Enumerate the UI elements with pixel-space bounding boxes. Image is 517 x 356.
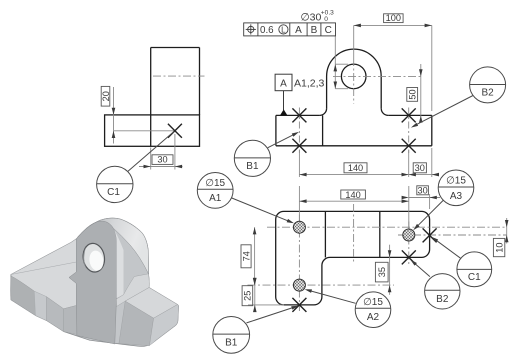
svg-text:25: 25: [243, 291, 253, 301]
svg-text:10: 10: [494, 242, 504, 252]
svg-text:30: 30: [415, 163, 425, 173]
svg-text:35: 35: [377, 267, 387, 277]
svg-text:B1: B1: [246, 161, 259, 172]
svg-text:B: B: [311, 25, 318, 36]
svg-text:∅15: ∅15: [446, 176, 466, 187]
svg-text:50: 50: [408, 89, 418, 99]
svg-text:30: 30: [157, 155, 167, 165]
svg-text:A1,2,3: A1,2,3: [294, 78, 325, 90]
svg-text:140: 140: [345, 190, 360, 200]
svg-text:L: L: [281, 25, 286, 34]
svg-text:B2: B2: [436, 294, 449, 305]
svg-text:0.6: 0.6: [260, 25, 274, 36]
svg-text:100: 100: [386, 13, 401, 23]
svg-text:C1: C1: [468, 272, 481, 283]
svg-text:0: 0: [324, 16, 328, 23]
svg-text:74: 74: [241, 251, 251, 261]
svg-text:A1: A1: [209, 193, 222, 204]
svg-text:20: 20: [101, 91, 111, 101]
svg-text:140: 140: [348, 163, 363, 173]
svg-text:A: A: [280, 78, 287, 89]
svg-text:∅15: ∅15: [205, 178, 225, 189]
svg-text:A2: A2: [367, 312, 380, 323]
svg-text:A3: A3: [450, 191, 463, 202]
svg-text:C1: C1: [107, 187, 120, 198]
svg-text:C: C: [325, 25, 332, 36]
svg-text:B2: B2: [481, 87, 494, 98]
svg-text:B1: B1: [225, 338, 238, 349]
svg-text:A: A: [295, 25, 302, 36]
svg-text:30: 30: [417, 186, 427, 196]
svg-text:∅15: ∅15: [363, 297, 383, 308]
svg-text:∅30: ∅30: [301, 12, 322, 24]
